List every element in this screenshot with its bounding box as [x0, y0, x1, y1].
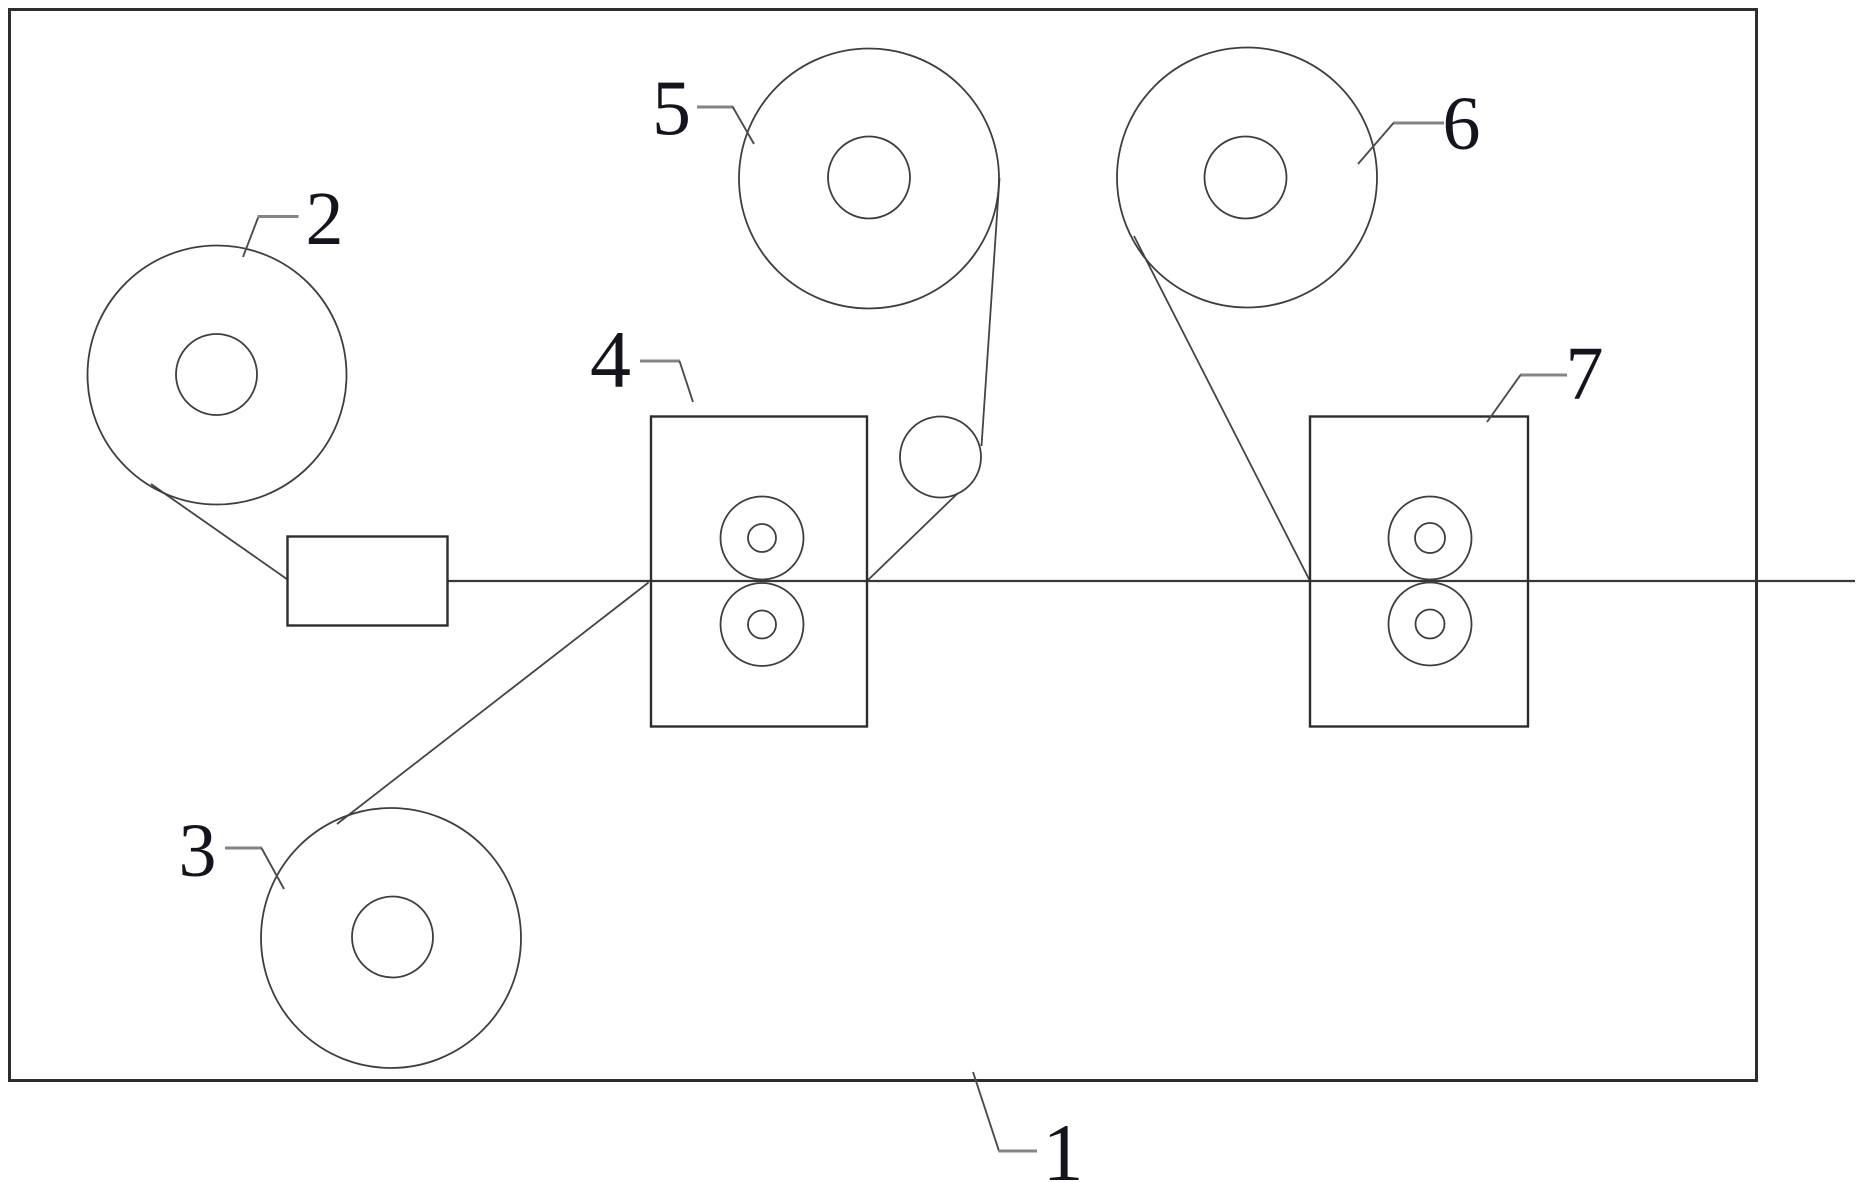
wire web from junction to roll 3 — [337, 583, 649, 825]
roll 3 core — [352, 897, 433, 978]
roll 2 outer — [88, 246, 347, 505]
roll 5 outer — [739, 49, 999, 309]
leader for label 1 — [973, 1072, 1037, 1151]
svg-text:2: 2 — [306, 177, 344, 261]
leader for label 5 — [697, 107, 754, 145]
leader for label 2 — [243, 217, 299, 258]
guide roller — [900, 417, 981, 498]
web line (horizontal substrate path) — [448, 580, 1856, 582]
coater box (unlabeled) — [288, 537, 448, 626]
wire web from roll 2 to coater — [151, 484, 288, 580]
svg-text:5: 5 — [652, 64, 691, 151]
press 7 upper roller core — [1415, 523, 1445, 553]
press 4 lower roller — [721, 583, 804, 666]
wire web from guide roller to press rect 4 — [867, 493, 958, 581]
press 7 lower roller core — [1416, 610, 1445, 639]
roll 6 outer — [1117, 48, 1377, 308]
leader for label 6 — [1358, 123, 1444, 164]
press 7 lower roller — [1389, 583, 1472, 666]
press unit 4 box — [651, 417, 867, 727]
press 7 upper roller — [1389, 497, 1472, 580]
press 4 upper roller — [721, 497, 804, 580]
svg-text:1: 1 — [1043, 1107, 1084, 1182]
svg-text:6: 6 — [1443, 82, 1481, 166]
press unit 7 box — [1310, 417, 1528, 727]
roll 6 core — [1205, 137, 1287, 219]
wire web from roll 6 to press rect 7 — [1134, 236, 1310, 581]
press 4 lower roller core — [748, 611, 776, 639]
roll 3 outer — [261, 808, 521, 1068]
roll 5 core — [828, 137, 910, 219]
wire web from roll 5 down to guide roller — [982, 178, 1000, 446]
leader for label 7 — [1487, 375, 1567, 422]
roll 2 core — [176, 334, 257, 415]
leader for label 3 — [225, 848, 284, 889]
svg-text:7: 7 — [1566, 332, 1604, 416]
svg-text:4: 4 — [590, 314, 631, 405]
leader for label 4 — [640, 361, 693, 402]
press 4 upper roller core — [748, 524, 776, 552]
svg-text:3: 3 — [179, 809, 217, 893]
